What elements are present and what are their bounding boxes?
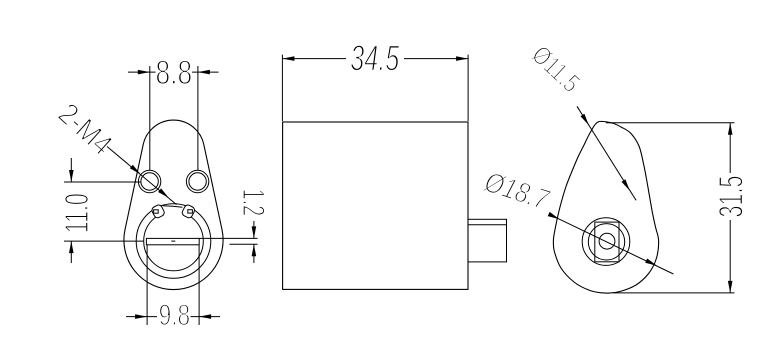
right view: boss outer circle (Ø18.7) — [582, 218, 630, 266]
dim 9.8: right arrow — [199, 314, 211, 319]
hole 2-M4 right (tap drill inner circle) — [189, 173, 206, 190]
left view: horizontal centerline left of slot — [64, 240, 144, 242]
dim 8.8: left extension line — [149, 66, 151, 170]
left view: boss outer circle — [136, 204, 211, 279]
left view: circlip ear hole left — [154, 210, 159, 213]
right view: nut flat rectangle — [595, 222, 619, 262]
middle view: body rectangle — [283, 122, 468, 289]
dim 9.8: left tail — [126, 316, 157, 318]
dim 11.0: top arrow — [69, 170, 74, 182]
leader Ø18.7: line — [549, 214, 673, 274]
dim 9.8: right extension line — [198, 245, 200, 325]
middle view: shaft boss rectangle — [468, 219, 507, 262]
svg-text:9.8: 9.8 — [159, 299, 191, 332]
dim 8.8: left tail — [128, 71, 156, 73]
left view: bore inner circle — [144, 211, 204, 271]
dim 34.5: right arrow — [456, 56, 468, 61]
left view: circlip ear right — [181, 204, 196, 219]
hole 2-M4 left (tap drill inner circle) — [141, 173, 158, 190]
leader 2-M4: second arrow — [158, 188, 169, 198]
leader Ø11.5: line — [577, 106, 636, 200]
left view: slot rectangle (9.8 x 1.2) — [146, 238, 199, 244]
dim 34.5: left segment — [282, 58, 346, 60]
dim 9.8: left extension line — [146, 245, 148, 325]
dim 8.8: right extension line — [197, 66, 199, 170]
right view: middle circle — [588, 224, 624, 260]
dim 11.0: top extension line — [64, 181, 141, 183]
dim 1.2: dim line top tail — [253, 221, 255, 238]
dim 31.5: bottom extension line — [613, 292, 735, 294]
left view: teardrop flange outline — [124, 120, 223, 290]
leader 2-M4: line — [107, 147, 177, 205]
dim 8.8: left arrow — [138, 70, 150, 75]
leader Ø11.5: arrow at top arc — [581, 114, 589, 125]
dim 9.8: left arrow — [135, 314, 147, 319]
svg-text:8.8: 8.8 — [156, 54, 193, 92]
dim 1.2: top arrow — [252, 226, 257, 238]
dim 34.5: right segment — [404, 58, 468, 60]
hole 2-M4 right (thread outer circle) — [186, 170, 208, 192]
hole 2-M4 left (thread outer circle) — [138, 170, 160, 192]
svg-text:1.2: 1.2 — [236, 189, 272, 217]
left view: chord line between circlip ears — [163, 206, 183, 208]
left view: circlip ear hole right — [188, 210, 193, 213]
right view: shaft small circle — [599, 233, 615, 249]
dim 31.5: top arrow — [728, 123, 733, 135]
svg-text:11.0: 11.0 — [59, 193, 96, 233]
left view: slot bottom edge extended right (1.2 extension line) — [230, 243, 258, 245]
dim 1.2: dim line bottom tail — [253, 244, 255, 263]
leader Ø11.5: arrow at lower crossing — [622, 179, 630, 190]
leader Ø18.7: arrow at left outline — [548, 212, 560, 219]
svg-text:34.5: 34.5 — [350, 38, 400, 79]
dim 34.5: left extension line — [281, 55, 283, 121]
dim 11.0: dim line top tail — [70, 158, 72, 182]
leader 2-M4: arrow at hole edge — [130, 165, 141, 175]
dim 11.0: dim line bottom tail — [70, 241, 72, 263]
dim 31.5: top extension line — [606, 122, 735, 124]
svg-text:31.5: 31.5 — [713, 176, 751, 218]
dim 31.5: bottom arrow — [728, 281, 733, 293]
dim 31.5: dim line upper segment — [729, 123, 731, 173]
dim 1.2: bottom arrow — [252, 244, 257, 256]
dim 34.5: left arrow — [282, 56, 294, 61]
left view: circlip ear left — [151, 204, 166, 219]
dim 31.5: dim line lower segment — [729, 220, 731, 293]
leader Ø18.7: arrow at right outline — [645, 259, 657, 266]
dim 34.5: right extension line — [467, 55, 469, 121]
left view: circlip opening mask between ears — [161, 208, 186, 217]
middle view: shaft collar line — [468, 224, 507, 226]
dim 11.0: bottom arrow — [69, 241, 74, 253]
dim 8.8: right tail — [192, 71, 219, 73]
dim 8.8: right arrow — [198, 70, 210, 75]
left view: centre mark dash — [171, 240, 175, 242]
dim 9.8: right tail — [191, 316, 221, 318]
left view: slot top edge extended right (1.2 extension line) — [199, 237, 257, 239]
right view: teardrop body outline — [553, 121, 658, 293]
